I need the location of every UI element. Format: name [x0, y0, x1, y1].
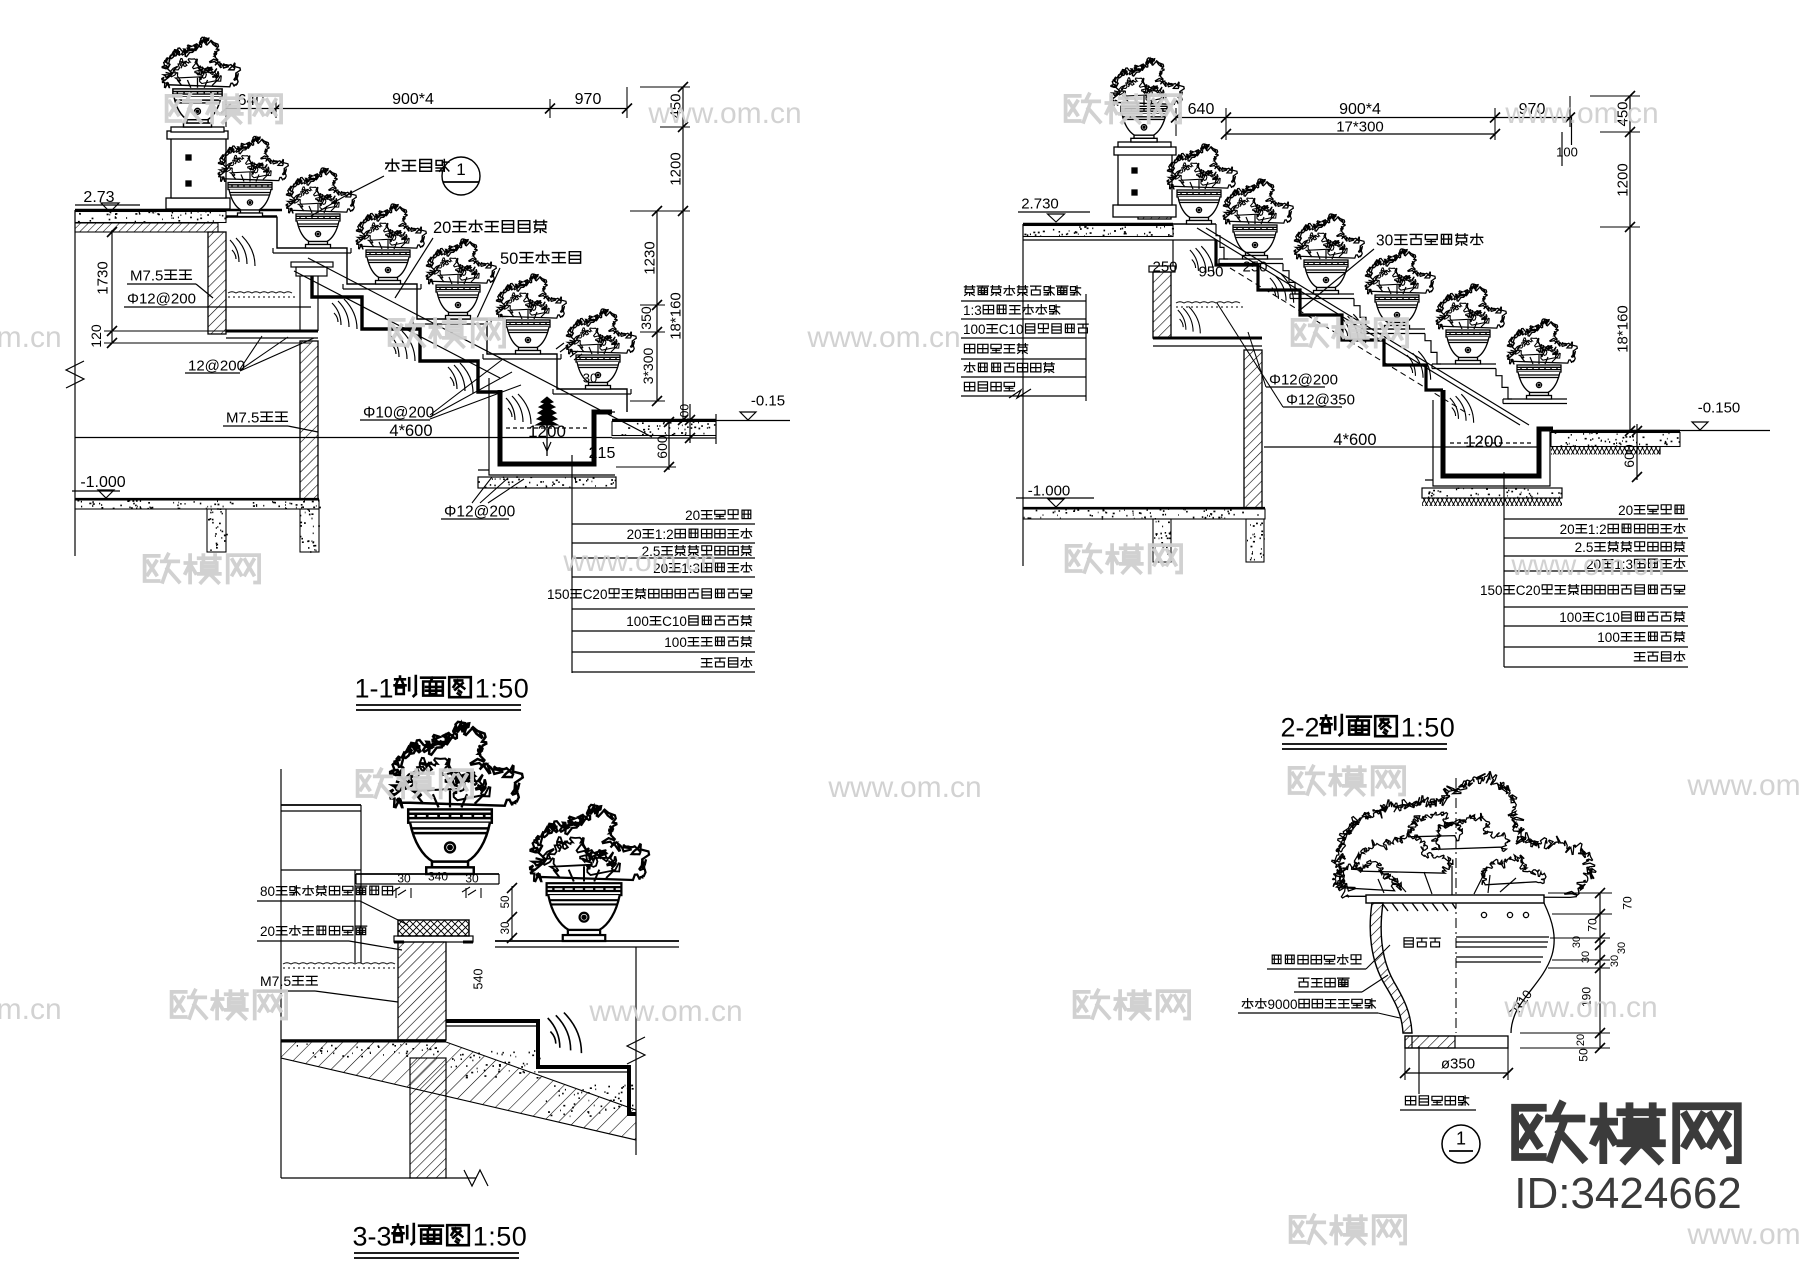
svg-text:600: 600 [654, 435, 670, 459]
brick retaining wall upper (hatched) [208, 232, 226, 334]
svg-text:120: 120 [88, 324, 104, 348]
svg-text:20: 20 [1618, 503, 1633, 518]
bottom line [281, 1177, 476, 1179]
left cut wall of pot (hatched band) [1370, 903, 1412, 1033]
1-1 material layers table [547, 455, 755, 673]
base plinth [1405, 1036, 1508, 1048]
brick wall lower (hatched) [300, 341, 318, 499]
labels left [1272, 955, 1281, 964]
fountain pool 2-2 [1443, 390, 1553, 476]
big pot 1 on plate [356, 873, 499, 875]
svg-text:20: 20 [627, 527, 642, 542]
site logo [1514, 1105, 1742, 1218]
svg-text:250: 250 [1242, 258, 1267, 275]
svg-text:www.om.cn: www.om.cn [827, 771, 981, 804]
svg-text:100: 100 [626, 614, 649, 629]
svg-text:Φ12@200: Φ12@200 [444, 504, 516, 521]
svg-text:www.om.cn: www.om.cn [588, 995, 742, 1028]
pier left [207, 509, 226, 552]
soil text [1404, 938, 1413, 947]
left boundary 3-3 [280, 769, 282, 1178]
svg-text:www.om.cn: www.om.cn [647, 97, 801, 130]
svg-text:100: 100 [1597, 630, 1620, 645]
1-1 annotations [75, 82, 690, 521]
basin [1153, 337, 1262, 340]
svg-text:Φ10@200: Φ10@200 [363, 405, 435, 422]
cap stone (cross hatched) [398, 920, 469, 936]
title 1-1 [354, 674, 529, 710]
level -0.150 [1556, 430, 1770, 432]
svg-text:1230: 1230 [641, 241, 658, 274]
right vertical dims 2-2 [1629, 96, 1631, 431]
big pot 2 [495, 940, 679, 942]
svg-text:www.om.cn: www.om.cn [1503, 991, 1657, 1024]
left boundary line [74, 210, 76, 556]
svg-text:540: 540 [472, 969, 486, 990]
fountain pool 1-1 [500, 390, 612, 464]
svg-text:C10: C10 [1595, 610, 1620, 625]
brick wall 3-3 [398, 942, 446, 1040]
svg-text:100: 100 [1559, 610, 1582, 625]
svg-text:www.om.cn: www.om.cn [806, 321, 960, 354]
svg-text:1: 1 [1456, 1129, 1466, 1149]
svg-text:www.om.cn: www.om.cn [0, 993, 62, 1026]
svg-text:30: 30 [583, 371, 597, 386]
spout onto step [548, 1013, 582, 1054]
svg-text:C20: C20 [583, 587, 608, 602]
right inner vertical dims 1230/350/3*300 [656, 211, 658, 401]
upper pool behind wall [226, 262, 333, 338]
svg-text:150: 150 [1480, 583, 1503, 598]
pier right 2-2 [1246, 519, 1264, 562]
small dim 100 near top [1561, 132, 1563, 166]
svg-text:3-3: 3-3 [352, 1222, 391, 1252]
svg-text:80: 80 [260, 884, 275, 899]
planter wall top left [281, 804, 361, 806]
svg-text:1200: 1200 [528, 422, 566, 441]
pots 2-2 [1167, 144, 1237, 224]
drain pipe + dim [1418, 1046, 1420, 1094]
pot rim [1366, 895, 1544, 903]
svg-text:100: 100 [963, 322, 986, 337]
svg-text:C20: C20 [1516, 583, 1541, 598]
svg-text:18*160: 18*160 [1614, 305, 1631, 353]
pots on steps 1-1 [218, 136, 288, 216]
svg-text:ø350: ø350 [1441, 1055, 1475, 1072]
small dim 100 [689, 404, 691, 443]
svg-text:215: 215 [589, 445, 616, 462]
2-2 annotations [961, 91, 1640, 449]
svg-text:30: 30 [465, 871, 479, 885]
label: sandstone pot bubble [386, 159, 399, 171]
pier 3-3 [410, 1058, 446, 1178]
bottom slab [1023, 507, 1265, 509]
svg-text:340: 340 [428, 869, 448, 883]
centerline [1455, 778, 1457, 1033]
svg-text:20: 20 [1560, 522, 1575, 537]
svg-text:1:3: 1:3 [963, 303, 982, 318]
svg-text:30: 30 [500, 922, 512, 935]
svg-text:Φ12@200: Φ12@200 [127, 290, 196, 307]
spouts 2-2 [1270, 274, 1294, 303]
svg-text:70: 70 [1585, 918, 1599, 932]
soil hatch at top [1382, 903, 1456, 911]
svg-text:www.om.cn: www.om.cn [1686, 1218, 1800, 1251]
svg-text:1:50: 1:50 [1401, 713, 1456, 743]
svg-text:30: 30 [1376, 233, 1394, 250]
svg-text:M7.5: M7.5 [260, 973, 291, 989]
pedestal with urn (1-1) [166, 127, 230, 210]
right pavement 2-2 [1551, 430, 1680, 432]
bottom slab at -1.000 [75, 498, 319, 500]
svg-text:70: 70 [1620, 896, 1634, 910]
detail 1: fiberglass pot section [1238, 772, 1634, 1163]
svg-text:100: 100 [1556, 145, 1578, 160]
svg-text:20: 20 [433, 219, 451, 237]
svg-text:1730: 1730 [94, 261, 111, 294]
svg-text:9000: 9000 [1268, 997, 1298, 1012]
water line [283, 963, 395, 964]
svg-text:-0.15: -0.15 [751, 392, 785, 409]
sloped slab diagonals [308, 258, 652, 437]
svg-text:100: 100 [677, 404, 691, 424]
svg-text:4*600: 4*600 [389, 422, 432, 440]
2-2 material layers table [1480, 472, 1688, 667]
svg-text:30: 30 [1580, 951, 1592, 963]
svg-text:-1.000: -1.000 [1028, 482, 1071, 499]
svg-text:900*4: 900*4 [1339, 101, 1381, 118]
step profile 1-1 [277, 217, 627, 413]
brick wall below basin 2-2 [1244, 350, 1262, 508]
right pavement at -0.15 [612, 419, 716, 421]
svg-text:1: 1 [456, 160, 465, 179]
svg-text:2.730: 2.730 [1021, 195, 1059, 212]
basin left wall (hatched) [1149, 266, 1175, 272]
level -0.15 [716, 420, 790, 422]
svg-text:Φ12@200: Φ12@200 [1269, 371, 1338, 388]
dim 600 pool depth [668, 420, 670, 470]
right dim chain [1520, 888, 1612, 1053]
pier right [300, 509, 319, 552]
svg-text:12@200: 12@200 [188, 357, 245, 374]
dim 600 2-2 [1636, 424, 1638, 480]
svg-text:20: 20 [260, 924, 275, 939]
title 2-2 [1280, 713, 1455, 749]
svg-text:30: 30 [1571, 936, 1583, 948]
svg-text:18*160: 18*160 [667, 292, 684, 340]
terraces with pots and small granite steps 2-2 [1216, 224, 1228, 259]
svg-text:350: 350 [638, 306, 654, 330]
svg-text:4*600: 4*600 [1333, 431, 1376, 449]
big steps 3-3 [446, 1021, 636, 1114]
sloped structure band [281, 1042, 636, 1140]
svg-text:150: 150 [547, 587, 570, 602]
svg-text:C10: C10 [662, 614, 687, 629]
svg-text:www.om.cn: www.om.cn [562, 545, 716, 578]
svg-text:M7.5: M7.5 [130, 267, 163, 284]
right boundary 3-3 [635, 947, 637, 1155]
svg-text:250: 250 [1152, 258, 1177, 275]
svg-text:50: 50 [1576, 1048, 1590, 1062]
svg-text:ID:3424662: ID:3424662 [1514, 1169, 1742, 1218]
detail bubble 1 [1442, 1125, 1480, 1163]
sloped slab diagonals 2-2 [1197, 228, 1520, 425]
svg-text:20: 20 [685, 508, 700, 523]
pier left 2-2 [1153, 519, 1171, 562]
svg-text:1:2: 1:2 [1588, 522, 1607, 537]
svg-text:3*300: 3*300 [640, 347, 656, 384]
svg-text:M7.5: M7.5 [226, 409, 259, 426]
section 1-1 stair-cascade cross section [66, 37, 790, 556]
svg-text:C10: C10 [999, 322, 1024, 337]
svg-text:www.om.cn: www.om.cn [0, 321, 62, 354]
svg-text:1:2: 1:2 [655, 527, 674, 542]
svg-text:600: 600 [1621, 444, 1637, 468]
svg-text:30: 30 [1609, 955, 1621, 967]
big plant [1332, 772, 1596, 898]
4*600 2-2 [1264, 446, 1537, 448]
thick cascade profile 2-2 [1216, 240, 1443, 390]
svg-text:900*4: 900*4 [392, 91, 434, 108]
water spouts on cascade [332, 299, 357, 329]
svg-text:1200: 1200 [1465, 432, 1503, 451]
left boundary [1022, 224, 1024, 566]
svg-text:www.om.cn: www.om.cn [1504, 97, 1658, 130]
svg-text:1-1: 1-1 [354, 674, 393, 704]
top dims 2-2 [1176, 117, 1570, 119]
roof slab strip left [281, 1039, 446, 1042]
svg-text:17*300: 17*300 [1336, 118, 1384, 135]
svg-text:1200: 1200 [1614, 163, 1631, 196]
top dimension line 640 / 900*4 / 970 [226, 108, 627, 110]
svg-text:1:50: 1:50 [475, 674, 530, 704]
svg-text:50: 50 [500, 896, 512, 909]
right elevation of pot [1456, 903, 1554, 1033]
pedestal with urn 2-2 [1113, 142, 1176, 219]
svg-text:-1.000: -1.000 [80, 474, 125, 491]
svg-text:50: 50 [500, 250, 518, 268]
svg-text:20: 20 [1575, 1034, 1587, 1046]
svg-text:-0.150: -0.150 [1698, 399, 1741, 416]
dia 350 dim [1404, 1048, 1406, 1080]
4*600 line [75, 437, 612, 439]
cascade thick step profile [312, 276, 500, 392]
roof slab at level 2.730 [1023, 223, 1173, 226]
section 3-3 corner detail [257, 722, 679, 1258]
svg-text:100: 100 [664, 635, 687, 650]
svg-text:30: 30 [397, 871, 411, 885]
svg-text:640: 640 [1188, 101, 1215, 118]
left vertical dims 1730/120 [111, 230, 113, 343]
svg-text:970: 970 [575, 91, 602, 108]
svg-text:www.om.cn: www.om.cn [1686, 769, 1800, 802]
svg-text:950: 950 [1198, 263, 1223, 280]
walkway and terraced steps with pots [226, 215, 277, 217]
svg-text:Φ12@350: Φ12@350 [1286, 391, 1355, 408]
svg-text:1:50: 1:50 [473, 1222, 528, 1252]
right outer vertical dims 450/1200/18*160 [682, 87, 684, 420]
svg-text:2-2: 2-2 [1280, 713, 1319, 743]
section 2-2 stair cross section [1016, 58, 1770, 566]
roof slab at level 2.73 [75, 209, 282, 212]
svg-text:30: 30 [1616, 942, 1628, 954]
svg-text:1200: 1200 [667, 152, 684, 185]
left material list 2-2 [961, 300, 1086, 302]
svg-text:www.om.cn: www.om.cn [1510, 549, 1664, 582]
